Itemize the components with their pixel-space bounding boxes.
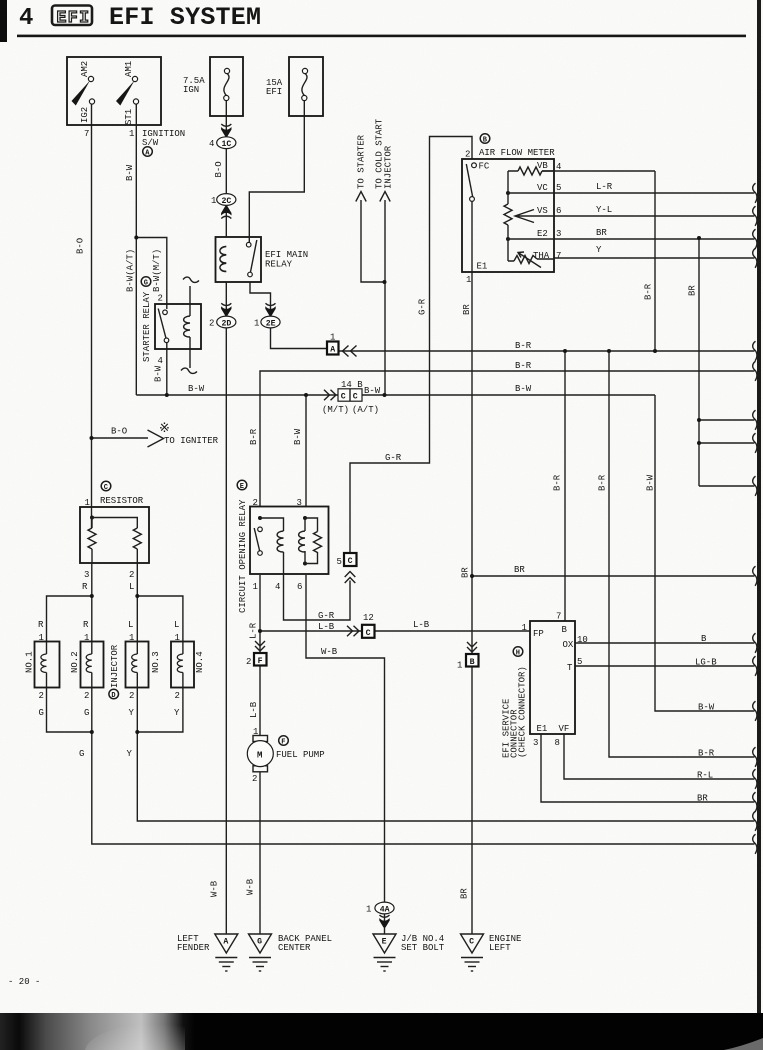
svg-text:B-W: B-W xyxy=(154,365,164,382)
svg-text:2: 2 xyxy=(39,691,44,701)
svg-text:M: M xyxy=(257,750,262,760)
svg-text:G-R: G-R xyxy=(418,298,428,315)
svg-text:NO.4: NO.4 xyxy=(195,651,205,673)
svg-text:5: 5 xyxy=(556,183,561,193)
svg-text:BR: BR xyxy=(697,794,708,804)
svg-text:3: 3 xyxy=(556,229,561,239)
svg-text:B-W: B-W xyxy=(125,164,135,181)
svg-text:T: T xyxy=(567,663,573,673)
svg-text:2: 2 xyxy=(129,570,134,580)
svg-text:R: R xyxy=(38,620,44,630)
svg-text:6: 6 xyxy=(556,206,561,216)
svg-text:(M/T): (M/T) xyxy=(322,405,349,415)
svg-text:E: E xyxy=(240,483,244,491)
svg-text:B: B xyxy=(701,634,707,644)
svg-text:F: F xyxy=(258,657,263,666)
svg-text:AIR FLOW METER: AIR FLOW METER xyxy=(479,148,555,158)
svg-text:FP: FP xyxy=(533,629,544,639)
svg-text:3: 3 xyxy=(84,570,89,580)
svg-text:B-R: B-R xyxy=(515,361,532,371)
svg-text:BR: BR xyxy=(688,285,698,296)
svg-text:B: B xyxy=(470,658,475,667)
svg-text:B-W: B-W xyxy=(188,384,205,394)
svg-text:4: 4 xyxy=(158,356,163,366)
svg-text:L-R: L-R xyxy=(596,182,613,192)
svg-text:EFI: EFI xyxy=(57,8,89,27)
svg-text:F: F xyxy=(281,738,285,746)
svg-text:L-B: L-B xyxy=(413,620,430,630)
svg-text:RESISTOR: RESISTOR xyxy=(100,496,144,506)
svg-text:BR: BR xyxy=(460,888,470,899)
svg-text:B-R: B-R xyxy=(698,749,715,759)
svg-text:SET BOLT: SET BOLT xyxy=(401,943,445,953)
svg-text:R: R xyxy=(82,582,88,592)
svg-text:1: 1 xyxy=(129,129,134,139)
svg-text:B-W: B-W xyxy=(364,386,381,396)
svg-text:4A: 4A xyxy=(380,905,390,914)
svg-text:G: G xyxy=(144,279,148,287)
svg-text:AM2: AM2 xyxy=(80,61,90,77)
svg-text:B-W: B-W xyxy=(646,474,656,491)
svg-text:7: 7 xyxy=(556,251,561,261)
svg-text:1: 1 xyxy=(253,727,258,737)
svg-text:G: G xyxy=(257,938,262,947)
svg-text:C: C xyxy=(104,484,108,492)
svg-text:FUEL PUMP: FUEL PUMP xyxy=(276,750,325,760)
svg-text:H: H xyxy=(516,649,520,657)
svg-text:B-W: B-W xyxy=(293,428,303,445)
svg-text:1: 1 xyxy=(466,275,471,285)
svg-text:A: A xyxy=(223,938,228,947)
svg-text:CIRCUIT OPENING RELAY: CIRCUIT OPENING RELAY xyxy=(238,499,248,613)
svg-text:G: G xyxy=(79,749,84,759)
svg-text:B-W(M/T): B-W(M/T) xyxy=(152,249,162,292)
svg-text:E2: E2 xyxy=(537,229,548,239)
svg-text:- 20 -: - 20 - xyxy=(8,977,40,987)
svg-text:FENDER: FENDER xyxy=(177,943,210,953)
svg-text:L-B: L-B xyxy=(318,622,335,632)
svg-text:BR: BR xyxy=(461,567,471,578)
svg-text:B-W(A/T): B-W(A/T) xyxy=(126,249,136,292)
svg-text:2C: 2C xyxy=(222,197,232,206)
svg-text:5: 5 xyxy=(577,657,582,667)
svg-text:B-R: B-R xyxy=(644,283,654,300)
svg-text:L-R: L-R xyxy=(249,622,259,639)
svg-text:2: 2 xyxy=(253,498,258,508)
svg-text:AM1: AM1 xyxy=(124,61,134,77)
svg-text:B-R: B-R xyxy=(553,474,563,491)
svg-text:EFI MAIN: EFI MAIN xyxy=(265,250,308,260)
svg-text:(CHECK CONNECTOR): (CHECK CONNECTOR) xyxy=(518,666,528,758)
svg-text:R-L: R-L xyxy=(697,771,713,781)
svg-text:IG2: IG2 xyxy=(80,107,90,123)
svg-text:(A/T): (A/T) xyxy=(352,405,379,415)
svg-text:1: 1 xyxy=(522,623,527,633)
svg-text:5: 5 xyxy=(337,557,342,567)
svg-text:OX: OX xyxy=(563,640,574,650)
svg-text:2: 2 xyxy=(129,691,134,701)
svg-text:L: L xyxy=(128,620,133,630)
svg-text:7: 7 xyxy=(556,612,561,622)
svg-text:B-W: B-W xyxy=(698,703,715,713)
svg-text:Y: Y xyxy=(174,708,180,718)
svg-text:B-W: B-W xyxy=(515,384,532,394)
svg-text:ST1: ST1 xyxy=(124,109,134,125)
svg-text:E1: E1 xyxy=(477,262,488,272)
svg-text:G-R: G-R xyxy=(318,611,335,621)
svg-text:A: A xyxy=(330,346,335,355)
svg-text:1: 1 xyxy=(330,333,335,343)
svg-text:10: 10 xyxy=(577,635,588,645)
svg-text:8: 8 xyxy=(555,738,560,748)
svg-text:W-B: W-B xyxy=(210,880,220,897)
svg-text:STARTER RELAY: STARTER RELAY xyxy=(142,291,152,362)
svg-text:B-R: B-R xyxy=(598,474,608,491)
svg-text:4: 4 xyxy=(556,162,561,172)
svg-text:EFI SYSTEM: EFI SYSTEM xyxy=(109,3,261,32)
svg-text:INJECTOR: INJECTOR xyxy=(384,145,394,189)
svg-text:B-R: B-R xyxy=(249,428,259,445)
svg-text:3: 3 xyxy=(297,498,302,508)
svg-text:2D: 2D xyxy=(222,319,232,328)
svg-text:C: C xyxy=(353,392,358,401)
svg-text:FC: FC xyxy=(479,162,490,172)
svg-text:R: R xyxy=(83,620,89,630)
svg-text:1: 1 xyxy=(254,319,259,329)
svg-text:BR: BR xyxy=(514,565,525,575)
svg-text:BR: BR xyxy=(596,228,607,238)
svg-text:TO IGNITER: TO IGNITER xyxy=(164,436,219,446)
svg-text:S/W: S/W xyxy=(142,138,159,148)
svg-text:2: 2 xyxy=(252,774,257,784)
svg-text:VS: VS xyxy=(537,206,548,216)
svg-text:E: E xyxy=(382,938,387,947)
svg-text:14 B: 14 B xyxy=(341,380,363,390)
svg-text:B-R: B-R xyxy=(515,341,532,351)
svg-text:※: ※ xyxy=(159,421,170,436)
svg-text:NO.2: NO.2 xyxy=(70,651,80,673)
svg-text:B-O: B-O xyxy=(214,161,224,177)
svg-text:Y-L: Y-L xyxy=(596,205,612,215)
svg-text:EFI: EFI xyxy=(266,87,282,97)
svg-text:L: L xyxy=(129,582,134,592)
svg-text:B-O: B-O xyxy=(76,238,86,254)
svg-text:BR: BR xyxy=(462,304,472,315)
svg-text:Y: Y xyxy=(127,749,133,759)
svg-text:G: G xyxy=(84,708,89,718)
svg-text:2: 2 xyxy=(84,691,89,701)
svg-text:Y: Y xyxy=(129,708,135,718)
svg-text:4: 4 xyxy=(275,582,280,592)
svg-text:G-R: G-R xyxy=(385,453,402,463)
svg-text:C: C xyxy=(348,557,353,566)
svg-text:4: 4 xyxy=(19,5,33,32)
svg-text:1: 1 xyxy=(211,196,216,206)
svg-text:TO STARTER: TO STARTER xyxy=(357,134,367,189)
svg-text:IGN: IGN xyxy=(183,85,199,95)
svg-text:1: 1 xyxy=(39,633,44,643)
svg-text:2: 2 xyxy=(465,150,470,160)
svg-text:C: C xyxy=(366,629,371,638)
svg-text:7: 7 xyxy=(84,129,89,139)
svg-text:4: 4 xyxy=(209,139,214,149)
svg-text:1: 1 xyxy=(175,633,180,643)
svg-text:3: 3 xyxy=(533,738,538,748)
svg-text:G: G xyxy=(39,708,44,718)
svg-text:1: 1 xyxy=(129,633,134,643)
svg-text:CENTER: CENTER xyxy=(278,943,311,953)
svg-text:C: C xyxy=(341,392,346,401)
svg-text:E1: E1 xyxy=(537,724,548,734)
svg-text:6: 6 xyxy=(297,582,302,592)
svg-text:2: 2 xyxy=(158,294,163,304)
svg-text:B: B xyxy=(562,625,568,635)
svg-text:VF: VF xyxy=(559,724,570,734)
svg-text:1: 1 xyxy=(366,905,371,915)
svg-text:C: C xyxy=(469,938,474,947)
svg-text:INJECTOR: INJECTOR xyxy=(110,644,120,688)
svg-text:W-B: W-B xyxy=(321,647,338,657)
svg-text:THA: THA xyxy=(533,251,550,261)
svg-text:1: 1 xyxy=(85,498,90,508)
svg-text:D: D xyxy=(111,692,115,700)
svg-text:W-B: W-B xyxy=(246,878,256,895)
svg-text:Y: Y xyxy=(596,245,602,255)
svg-text:B-O: B-O xyxy=(111,427,127,437)
svg-text:2: 2 xyxy=(209,319,214,329)
svg-text:NO.1: NO.1 xyxy=(25,651,35,673)
svg-text:2E: 2E xyxy=(266,319,276,328)
svg-text:NO.3: NO.3 xyxy=(151,651,161,673)
svg-text:RELAY: RELAY xyxy=(265,260,293,270)
svg-text:LEFT: LEFT xyxy=(489,943,511,953)
svg-text:12: 12 xyxy=(363,613,374,623)
svg-text:LG-B: LG-B xyxy=(695,658,717,668)
svg-text:1C: 1C xyxy=(222,140,232,149)
svg-text:2: 2 xyxy=(175,691,180,701)
svg-text:1: 1 xyxy=(253,582,258,592)
svg-text:2: 2 xyxy=(246,657,251,667)
svg-text:1: 1 xyxy=(457,661,462,671)
svg-text:L-B: L-B xyxy=(249,701,259,718)
svg-text:VB: VB xyxy=(537,161,548,171)
svg-text:VC: VC xyxy=(537,183,548,193)
svg-text:L: L xyxy=(174,620,179,630)
svg-text:1: 1 xyxy=(84,633,89,643)
